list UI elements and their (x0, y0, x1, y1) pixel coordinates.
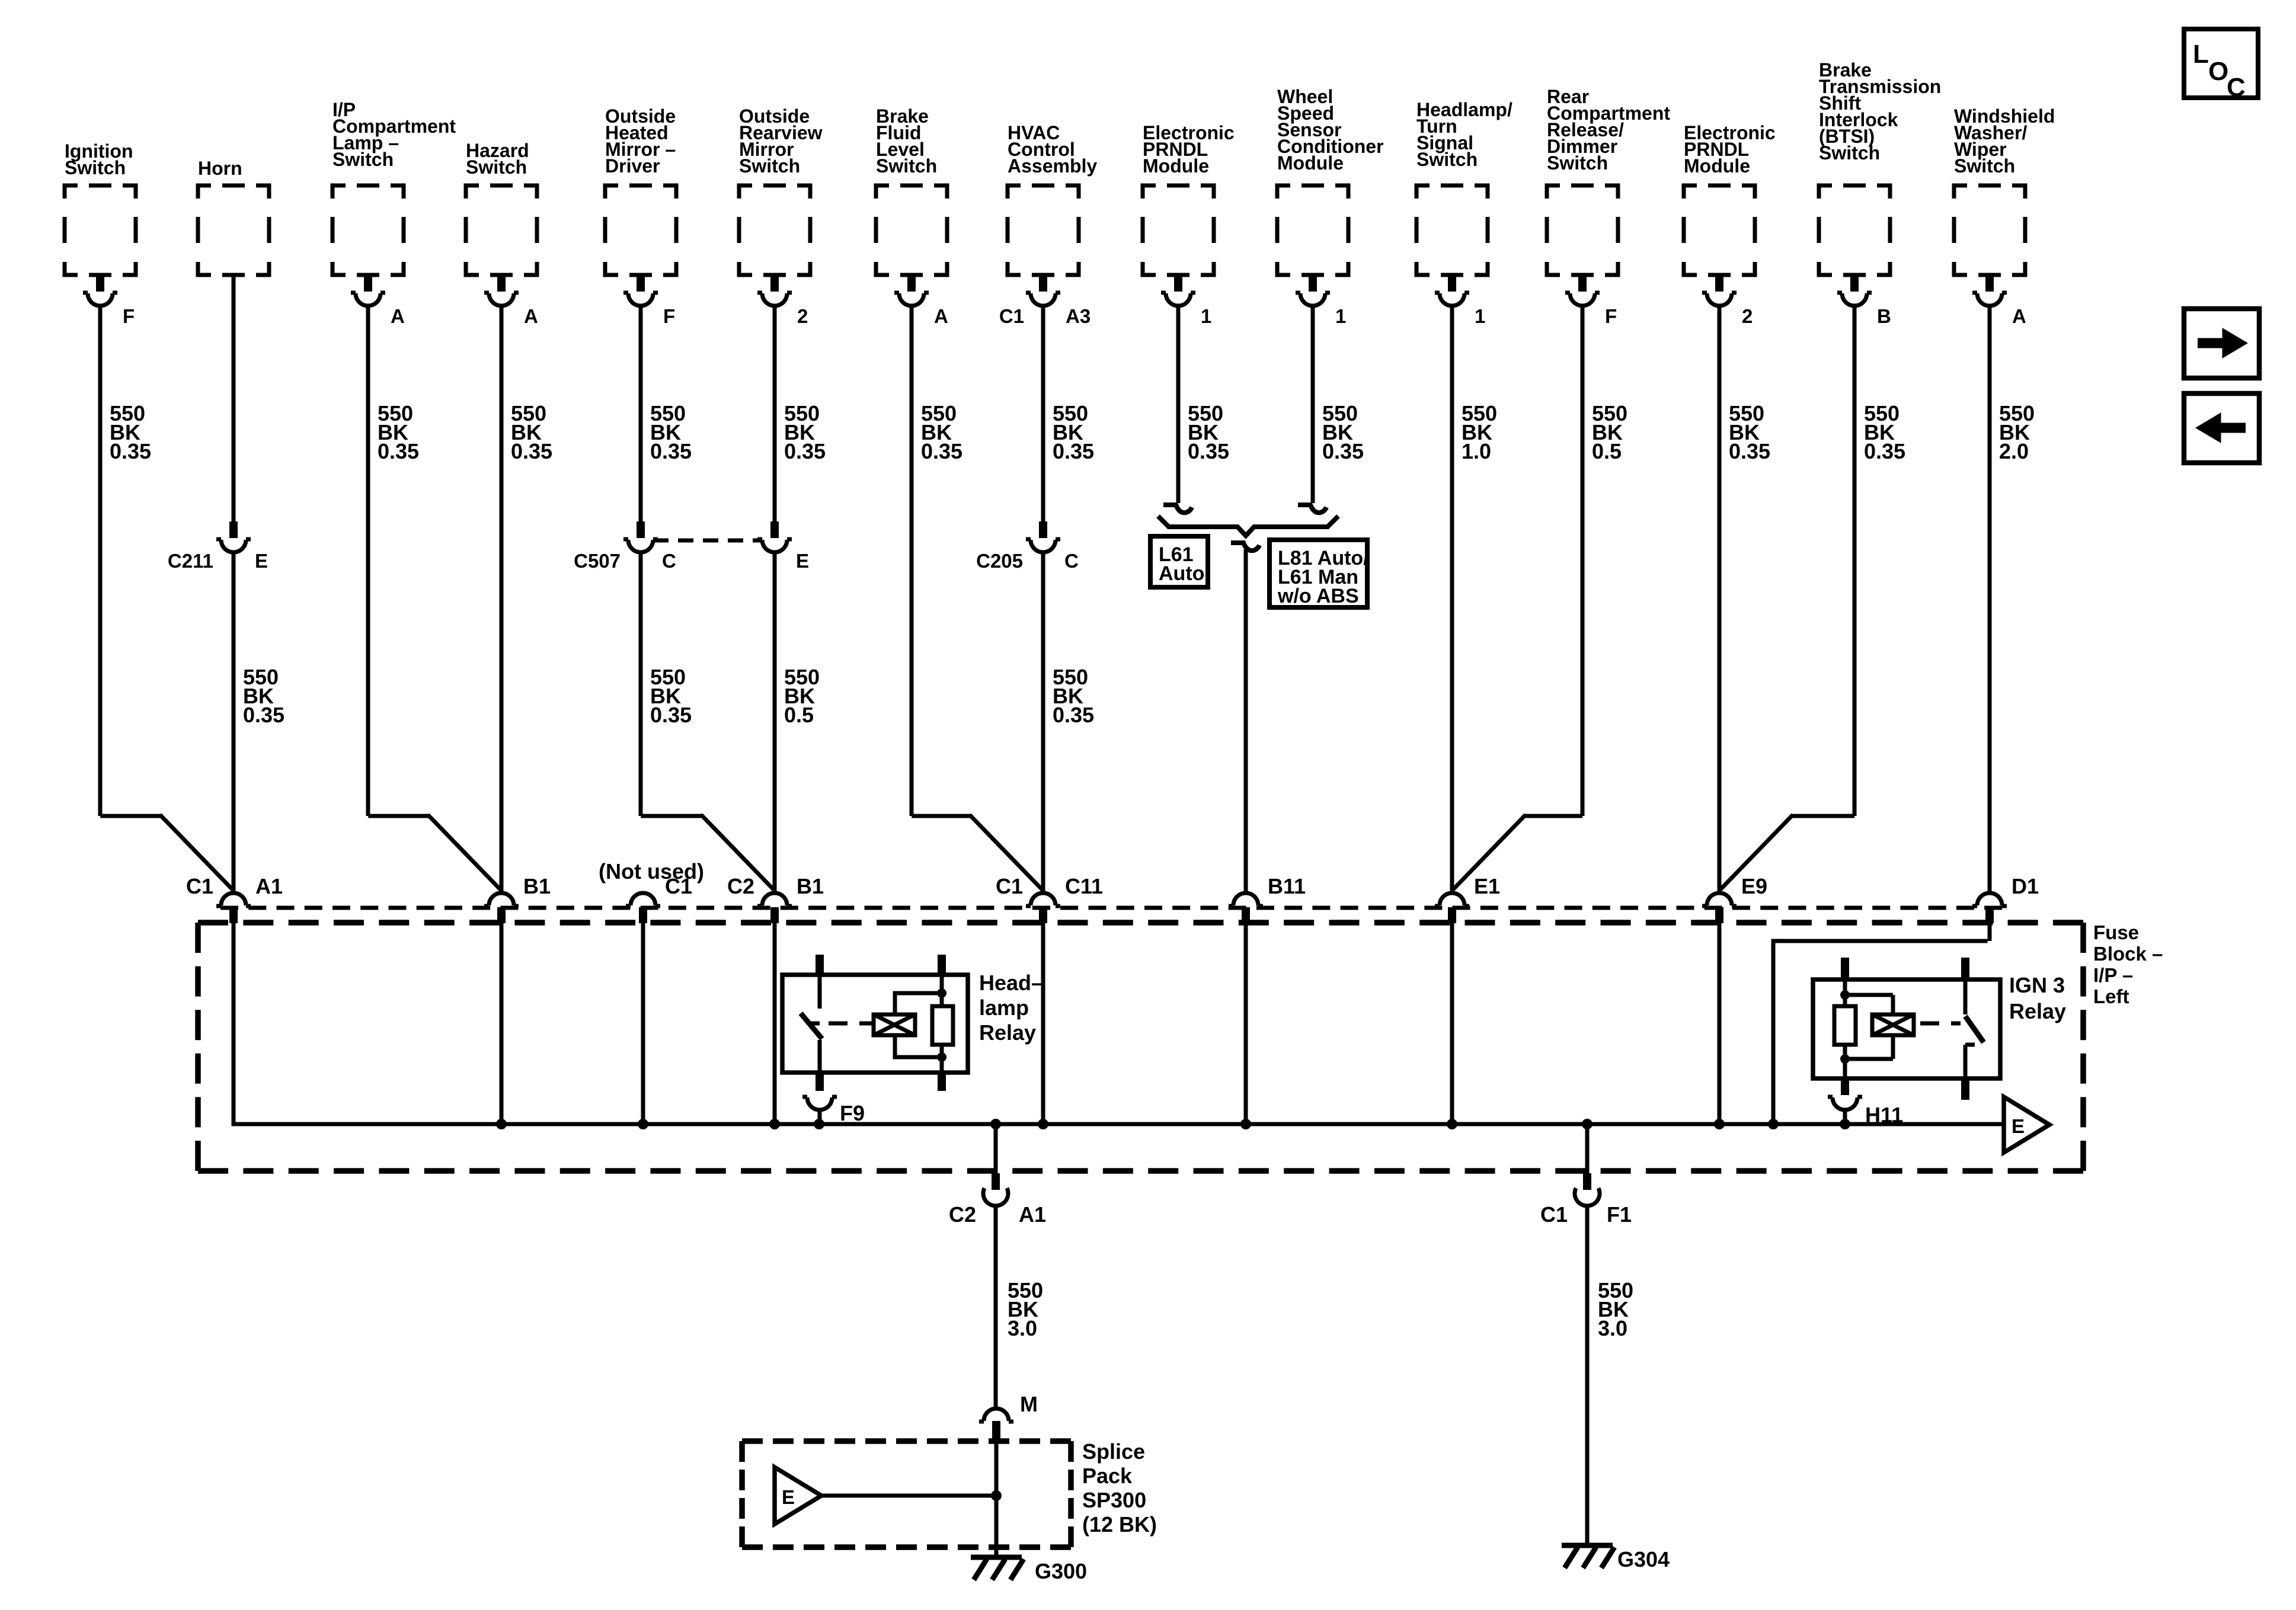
wire label 550 BK 0.35 (HVAC control assembly) (1053, 401, 1094, 463)
wire label 550 BK 0.35 (electronic PRNDL module 2) (1729, 401, 1770, 463)
svg-text:A: A (524, 305, 538, 327)
svg-text:Pack: Pack (1082, 1464, 1133, 1488)
svg-text:Relay: Relay (979, 1020, 1036, 1045)
fuse block internal wire x=1760 (1041, 923, 1045, 1124)
fuse block pin A1 (connector C1) (186, 874, 283, 923)
svg-text:C: C (662, 550, 676, 572)
wire wheel speed sensor conditioner module to splice group (1311, 306, 1315, 503)
wire electronic PRNDL module 2 to fuse block (1718, 306, 1722, 892)
pin A of hazard switch (484, 275, 538, 327)
wire label 550 BK 0.35 (ignition switch) (110, 401, 151, 463)
wire label 550 BK 0.5 (rear compartment release dimmer switch) (1592, 401, 1627, 463)
svg-text:Driver: Driver (605, 155, 660, 177)
prev-page arrow box (2184, 393, 2259, 463)
fuse block internal wire x=2450 (1450, 923, 1454, 1124)
svg-text:C: C (1064, 550, 1079, 572)
component box headlamp turn signal switch (1416, 99, 1512, 275)
wire BTSI switch bend to pin x=2901 (1719, 306, 1854, 891)
wire fuse block F1 out (1585, 1124, 1590, 1173)
ground G304 (1562, 1545, 1670, 1571)
wire label 550 BK 0.35 lower (HVAC control assembly) (1053, 665, 1094, 727)
svg-text:0.5: 0.5 (784, 703, 814, 727)
connector C205 pin C (976, 521, 1079, 572)
pin A of windshield washer wiper switch (1972, 275, 2026, 327)
pin 2 of electronic PRNDL module 2 (1702, 275, 1753, 327)
svg-text:2: 2 (1742, 305, 1753, 327)
fuse block pin B1 (484, 874, 551, 923)
wire label 550 BK 0.35 (brake fluid level switch) (921, 401, 962, 463)
svg-text:E: E (782, 1486, 795, 1508)
svg-text:0.35: 0.35 (243, 703, 284, 727)
fuse block pin E1 (1435, 874, 1500, 923)
wire label 550 BK 0.35 (BTSI switch) (1864, 401, 1905, 463)
svg-text:2: 2 (797, 305, 808, 327)
wire headlamp turn signal switch to fuse block (1450, 306, 1454, 892)
net E arrow (fuse block) (2004, 1097, 2049, 1153)
wire electronic PRNDL module to splice group (1176, 306, 1181, 503)
svg-text:B1: B1 (523, 874, 551, 898)
connector C1 pin F1 (1540, 1173, 1632, 1227)
svg-text:C1: C1 (999, 305, 1024, 327)
splice group brace (1158, 516, 1338, 536)
component box outside rearview mirror switch (739, 105, 823, 275)
headlamp relay (782, 955, 1043, 1091)
fuse block internal wire x=2901 (1718, 923, 1722, 1124)
wire label 550 BK 3.0 (left) (1008, 1278, 1043, 1340)
wire fuse block A1 out (994, 1124, 998, 1173)
component box hazard switch (466, 140, 537, 275)
svg-text:0.35: 0.35 (378, 439, 419, 463)
wire label 550 BK 2.0 (windshield washer wiper switch) (1999, 401, 2035, 463)
svg-text:0.35: 0.35 (110, 439, 151, 463)
svg-text:F1: F1 (1607, 1202, 1632, 1227)
svg-text:Assembly: Assembly (1008, 155, 1097, 177)
wire to splice pack (994, 1206, 998, 1407)
svg-text:(12 BK): (12 BK) (1082, 1512, 1157, 1537)
svg-text:Left: Left (2093, 985, 2129, 1007)
wire HVAC control assembly to fuse block (1041, 553, 1045, 892)
svg-text:C1: C1 (1540, 1202, 1568, 1227)
wire label 550 BK 1.0 (headlamp turn signal switch) (1462, 401, 1497, 463)
component box windshield washer wiper switch (1954, 105, 2055, 275)
wire label 550 BK 0.35 lower (outside heated mirror driver) (650, 665, 692, 727)
ground bus wire (232, 1122, 2004, 1126)
pin B of BTSI switch (1837, 275, 1891, 327)
svg-text:Splice: Splice (1082, 1439, 1145, 1464)
svg-text:Fuse: Fuse (2093, 921, 2139, 943)
svg-text:O: O (2208, 57, 2228, 86)
svg-text:L: L (2193, 40, 2209, 69)
bus junction x=2678 (1582, 1119, 1593, 1129)
option box L61 Auto (1150, 536, 1208, 587)
ground G300 (971, 1557, 1087, 1583)
label (Not used) (599, 859, 704, 884)
component box brake fluid level switch (876, 105, 947, 275)
fuse block pin B11 (1229, 874, 1306, 923)
wire brake fluid level switch bend to pin x=1760 (912, 306, 1043, 891)
component box horn (198, 158, 269, 275)
bus junction x=1680 (990, 1119, 1001, 1129)
svg-text:F9: F9 (840, 1101, 865, 1125)
wire hazard switch to fuse block (500, 306, 504, 892)
svg-text:C2: C2 (949, 1202, 976, 1227)
svg-text:B11: B11 (1268, 874, 1306, 898)
wire label 550 BK 0.35 horn (243, 665, 284, 727)
svg-text:B1: B1 (797, 874, 824, 898)
wire label 550 BK 3.0 (right) (1598, 1278, 1633, 1340)
svg-text:3.0: 3.0 (1008, 1316, 1037, 1340)
component box BTSI switch (1819, 59, 1941, 275)
wire HVAC control assembly upper segment (1041, 306, 1045, 521)
svg-text:0.35: 0.35 (650, 703, 692, 727)
label Splice Pack SP300 (12 BK) (1082, 1439, 1157, 1537)
fuse F9 connector (802, 1097, 865, 1125)
wire rear compartment release dimmer switch bend to pin x=2450 (1452, 306, 1582, 891)
svg-text:0.35: 0.35 (1322, 439, 1364, 463)
svg-text:Switch: Switch (739, 155, 800, 177)
component box rear compartment release dimmer switch (1547, 86, 1670, 275)
component box I/P compartment lamp switch (332, 99, 456, 275)
svg-text:Horn: Horn (198, 158, 242, 179)
svg-text:H11: H11 (1865, 1103, 1903, 1127)
wire outside heated mirror driver bend to pin x=1307 (641, 553, 775, 891)
svg-text:1: 1 (1335, 305, 1346, 327)
component box wheel speed sensor conditioner module (1277, 86, 1384, 275)
svg-text:0.35: 0.35 (650, 439, 692, 463)
svg-text:Switch: Switch (1547, 152, 1608, 174)
pin 1 of electronic PRNDL module (1161, 275, 1211, 327)
svg-text:A1: A1 (1019, 1202, 1046, 1227)
svg-text:IGN 3: IGN 3 (2009, 973, 2065, 997)
fuse block pin E9 (1702, 874, 1767, 923)
svg-text:C: C (2227, 73, 2246, 102)
fuse block pin D1 (1972, 874, 2039, 923)
connector H11 (1828, 1097, 1903, 1127)
svg-text:0.35: 0.35 (1188, 439, 1229, 463)
fuse block pin C1 (not used) (626, 874, 692, 923)
svg-text:E1: E1 (1474, 874, 1500, 898)
svg-text:F: F (1605, 305, 1617, 327)
fuse block internal wire x=394 (232, 923, 236, 1124)
LOC legend box (2184, 29, 2258, 102)
svg-text:E: E (2012, 1115, 2025, 1137)
svg-text:lamp: lamp (979, 996, 1029, 1020)
svg-text:1.0: 1.0 (1462, 439, 1491, 463)
fuse block internal wire x=1085 (641, 923, 645, 1124)
pin A3 of HVAC control assembly (999, 275, 1091, 327)
wire label 550 BK 0.35 (outside rearview mirror switch) (784, 401, 826, 463)
wire splice to fuse block pin B11 (1244, 549, 1248, 892)
svg-text:Block –: Block – (2093, 943, 2163, 965)
bus junction x=1760 (1038, 1119, 1048, 1129)
wire windshield washer wiper switch to fuse block (1988, 306, 1992, 892)
svg-text:C1: C1 (186, 874, 213, 898)
svg-text:M: M (1020, 1392, 1038, 1416)
wire ignition switch bend to pin x=394 (100, 306, 234, 891)
svg-text:E9: E9 (1741, 874, 1767, 898)
pin A of brake fluid level switch (894, 275, 948, 327)
wire splice to ground (994, 1439, 999, 1557)
svg-text:E: E (796, 550, 809, 572)
svg-text:Switch: Switch (876, 155, 937, 177)
svg-text:C205: C205 (976, 550, 1023, 572)
svg-text:C507: C507 (574, 550, 621, 572)
svg-text:0.35: 0.35 (784, 439, 826, 463)
svg-text:w/o ABS: w/o ABS (1277, 585, 1359, 607)
svg-text:F: F (123, 305, 135, 327)
svg-text:1: 1 (1201, 305, 1211, 327)
bus junction x=1307 (769, 1119, 780, 1129)
svg-text:A: A (2012, 305, 2026, 327)
net E arrow (splice pack) (775, 1467, 821, 1524)
svg-text:3.0: 3.0 (1598, 1316, 1627, 1340)
svg-text:0.35: 0.35 (921, 439, 962, 463)
fuse block pin strip dotted line (220, 906, 2002, 910)
component box HVAC control assembly (1008, 122, 1097, 275)
svg-text:0.35: 0.35 (511, 439, 552, 463)
wire outside rearview mirror switch upper segment (773, 306, 777, 521)
svg-text:Switch: Switch (466, 156, 527, 178)
connector C507 dashed link (653, 539, 762, 543)
connector C507 pin C (574, 521, 676, 572)
svg-text:Switch: Switch (1954, 155, 2015, 177)
connector C507 pin E (757, 521, 809, 572)
fuse block pin C11 (connector C1) (996, 874, 1103, 923)
svg-text:A: A (391, 305, 405, 327)
wire to ground G304 (1585, 1206, 1590, 1545)
component box ignition switch (65, 140, 136, 275)
svg-text:(Not used): (Not used) (599, 859, 704, 884)
wire E arrow to splice (821, 1494, 996, 1498)
svg-text:A3: A3 (1066, 305, 1091, 327)
splice output curl (1231, 543, 1259, 550)
svg-text:B: B (1877, 305, 1891, 327)
svg-text:Switch: Switch (332, 149, 394, 170)
svg-text:C1: C1 (996, 874, 1023, 898)
bus junction x=1382 (814, 1119, 824, 1129)
pin F of outside heated mirror driver (623, 275, 675, 327)
fuse block internal wire x=2102 (1244, 923, 1248, 1124)
fuse block pin B1 (connector C2) (727, 874, 824, 923)
svg-text:A1: A1 (255, 874, 283, 898)
bus junction x=2450 (1447, 1119, 1457, 1129)
wire label 550 BK 0.35 (wheel speed sensor conditioner module) (1322, 401, 1364, 463)
pin A of I/P compartment lamp switch (351, 275, 405, 327)
svg-text:0.35: 0.35 (1053, 439, 1094, 463)
IGN 3 relay (1813, 958, 2066, 1100)
wire end curl electronic PRNDL module (1163, 505, 1192, 513)
wire label 550 BK 0.35 (I/P compartment lamp switch) (378, 401, 419, 463)
component box electronic PRNDL module (1143, 122, 1235, 275)
svg-text:Relay: Relay (2009, 999, 2066, 1023)
pin 1 of headlamp turn signal switch (1435, 275, 1485, 327)
wire end curl wheel speed sensor conditioner module (1298, 505, 1326, 513)
svg-text:0.35: 0.35 (1864, 439, 1905, 463)
wire outside rearview mirror switch to fuse block (773, 553, 777, 892)
svg-text:F: F (663, 305, 675, 327)
wire label 550 BK 0.35 (electronic PRNDL module) (1188, 401, 1229, 463)
component box outside heated mirror driver (605, 105, 676, 275)
svg-text:C11: C11 (1065, 874, 1103, 898)
svg-text:Module: Module (1277, 152, 1344, 174)
next-page arrow box (2184, 309, 2259, 378)
svg-text:1: 1 (1475, 305, 1485, 327)
splice pack dashed box (742, 1441, 1071, 1547)
svg-text:0.35: 0.35 (1053, 703, 1094, 727)
svg-text:Switch: Switch (1819, 142, 1880, 164)
fuse block internal wire x=846 (500, 923, 504, 1124)
svg-text:SP300: SP300 (1082, 1488, 1146, 1512)
svg-text:G304: G304 (1617, 1547, 1670, 1571)
svg-text:Switch: Switch (65, 157, 126, 178)
pin 1 of wheel speed sensor conditioner module (1296, 275, 1346, 327)
svg-text:Module: Module (1143, 155, 1209, 177)
wire label 550 BK 0.35 (hazard switch) (511, 401, 552, 463)
svg-text:Head–: Head– (979, 971, 1043, 995)
wire horn to C211 (232, 275, 236, 521)
pin F of rear compartment release dimmer switch (1565, 275, 1617, 327)
wire label 550 BK 0.35 (outside heated mirror driver) (650, 401, 692, 463)
wire outside heated mirror driver upper segment (639, 306, 643, 521)
svg-text:E: E (255, 550, 268, 572)
fuse block dashed border (198, 923, 2083, 1171)
bus junction x=2992 (1768, 1119, 1779, 1129)
connector C2 pin A1 (949, 1173, 1046, 1227)
bus junction x=3113 (1840, 1119, 1850, 1129)
svg-text:Module: Module (1684, 155, 1750, 177)
connector C211 pin E (168, 521, 268, 572)
option box L81 Auto / L61 Man w/o ABS (1269, 540, 1369, 607)
fuse block internal wire x=1307 (773, 923, 777, 1124)
bus junction x=2901 (1714, 1119, 1725, 1129)
svg-text:Auto: Auto (1159, 562, 1204, 585)
fuse block internal wire from D1 (1773, 923, 1990, 1124)
wire I/P compartment lamp switch bend to pin x=846 (368, 306, 501, 891)
component box electronic PRNDL module 2 (1684, 122, 1776, 275)
svg-text:C211: C211 (168, 550, 213, 572)
svg-text:D1: D1 (2012, 874, 2039, 898)
pin 2 of outside rearview mirror switch (757, 275, 808, 327)
svg-text:A: A (934, 305, 948, 327)
bus junction x=846 (496, 1119, 507, 1129)
bus junction x=2102 (1240, 1119, 1251, 1129)
bus junction x=1085 (638, 1119, 648, 1129)
svg-text:G300: G300 (1035, 1559, 1087, 1583)
wire horn C211 to fuse block pin A1 (232, 553, 236, 892)
svg-text:2.0: 2.0 (1999, 439, 2029, 463)
svg-text:Switch: Switch (1416, 149, 1478, 170)
svg-text:I/P –: I/P – (2093, 964, 2133, 986)
svg-text:0.5: 0.5 (1592, 439, 1622, 463)
pin F of ignition switch (83, 275, 135, 327)
svg-text:C2: C2 (727, 874, 754, 898)
svg-text:0.35: 0.35 (1729, 439, 1770, 463)
label Fuse Block - I/P - Left (2093, 921, 2163, 1007)
splice junction (991, 1490, 1002, 1501)
wire label 550 BK 0.5 lower (outside rearview mirror switch) (784, 665, 820, 727)
splice pack pin M (979, 1392, 1038, 1439)
